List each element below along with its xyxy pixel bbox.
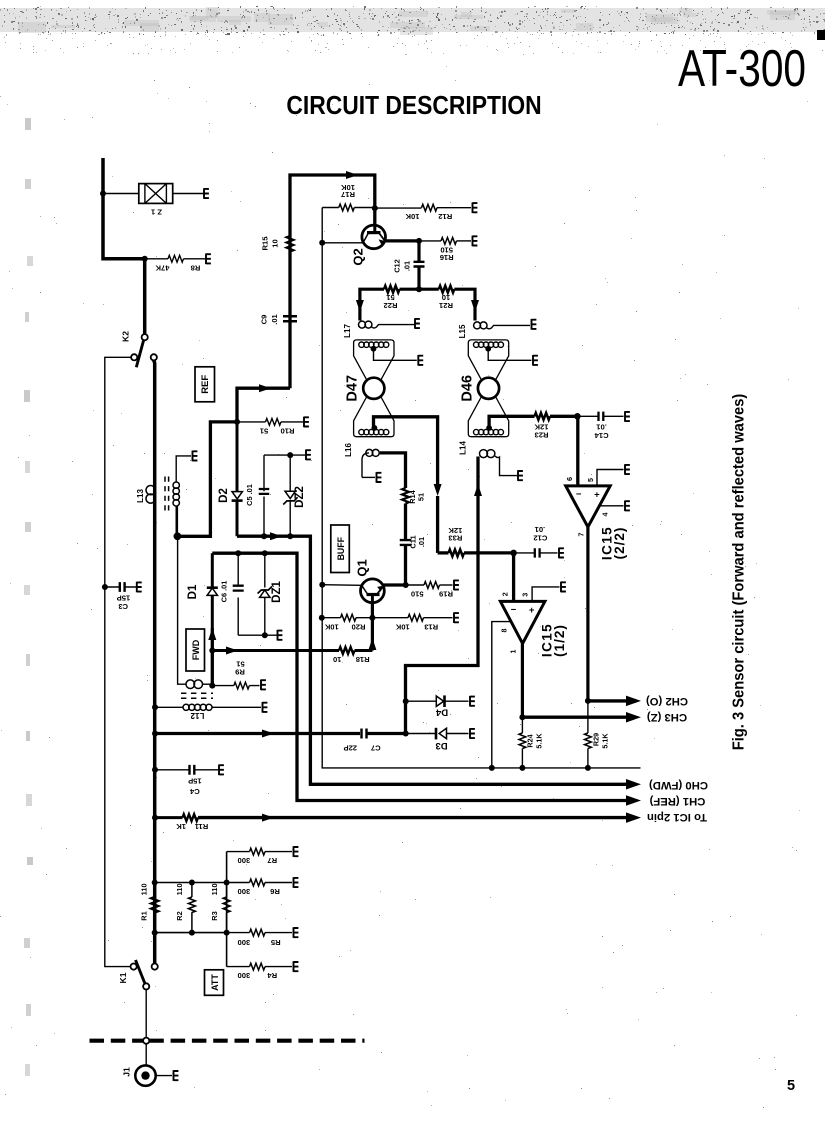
arrow C7 line bbox=[262, 730, 274, 738]
wire L13 tap down to L12 primary bbox=[178, 536, 187, 684]
svg-text:C14: C14 bbox=[594, 431, 609, 440]
ground R9 bbox=[261, 680, 266, 691]
svg-text:C9: C9 bbox=[260, 315, 269, 325]
wire Q1 emitter to R18 bbox=[371, 618, 374, 644]
svg-text:R9: R9 bbox=[235, 667, 245, 676]
diode D2 bbox=[218, 422, 243, 536]
resistor R17 10K bbox=[322, 183, 375, 211]
svg-text:300: 300 bbox=[238, 971, 251, 980]
resistor R29 5.1K bbox=[585, 701, 610, 768]
svg-text:D3: D3 bbox=[435, 740, 447, 751]
svg-text:1K: 1K bbox=[176, 822, 186, 831]
node DZ2 top bbox=[287, 452, 293, 458]
svg-text:47K: 47K bbox=[155, 264, 169, 273]
ground L17 bbox=[415, 318, 420, 329]
wire REF rail bbox=[237, 536, 627, 784]
svg-text:.01: .01 bbox=[417, 537, 426, 547]
node R20 line junctions bbox=[319, 615, 376, 621]
svg-text:2: 2 bbox=[501, 592, 510, 596]
wire main bus bbox=[152, 360, 156, 963]
svg-text:3: 3 bbox=[521, 593, 530, 597]
svg-text:R6: R6 bbox=[270, 887, 280, 896]
node R17 collector junction bbox=[372, 205, 378, 211]
wire D46 output bbox=[489, 416, 534, 428]
wire FWD column lower bbox=[211, 628, 214, 686]
svg-text:R12: R12 bbox=[438, 212, 452, 221]
wire L16 to R14 column bbox=[380, 453, 406, 488]
capacitor C3 15P bbox=[105, 582, 137, 611]
svg-text:L17: L17 bbox=[343, 324, 352, 338]
svg-text:R17: R17 bbox=[341, 190, 355, 199]
inductor L15 bbox=[458, 322, 530, 338]
svg-text:R5: R5 bbox=[270, 938, 280, 947]
wire R15 C9 column bbox=[290, 175, 375, 388]
node R11 tap bbox=[152, 815, 158, 821]
resistor R3 110 bbox=[210, 883, 230, 933]
node bias bus junctions bbox=[489, 765, 591, 771]
label box FWD bbox=[186, 629, 205, 671]
svg-text:4: 4 bbox=[601, 513, 610, 517]
svg-text:110: 110 bbox=[175, 883, 184, 895]
svg-text:R24: R24 bbox=[526, 734, 535, 747]
svg-text:L16: L16 bbox=[344, 443, 353, 457]
wire C6 DZ1 ground line bbox=[238, 634, 276, 636]
ground R13 bbox=[454, 612, 459, 623]
ground R4 bbox=[294, 961, 299, 972]
ground L13 secondary bbox=[193, 451, 198, 462]
svg-text:L15: L15 bbox=[458, 324, 467, 338]
wire attenuator bottom rail bbox=[155, 932, 227, 934]
chassis dashed line bbox=[90, 1039, 365, 1043]
resistor R33 12K bbox=[438, 526, 514, 556]
resistor R8 47K bbox=[145, 255, 206, 272]
arrowhead CH3 output bbox=[626, 712, 641, 723]
svg-text:300: 300 bbox=[238, 938, 251, 947]
wire REF corner bbox=[237, 388, 290, 422]
capacitor C5 .01 bbox=[245, 455, 269, 536]
node C7 on bus bbox=[152, 731, 158, 737]
diode D1 bbox=[187, 553, 218, 628]
svg-text:R23: R23 bbox=[535, 430, 549, 439]
wire antenna input top bbox=[103, 158, 145, 334]
node C12 R21 R22 junction bbox=[416, 286, 422, 292]
wire FWD rail bbox=[212, 553, 627, 800]
svg-text:+: + bbox=[594, 489, 600, 500]
zener diode DZ1 bbox=[258, 553, 283, 635]
svg-text:+: + bbox=[529, 605, 535, 616]
wire L14 column down bbox=[406, 457, 479, 734]
op-amp IC15 2/2 bbox=[565, 477, 627, 560]
svg-text:15P: 15P bbox=[117, 594, 131, 603]
ground C12b bbox=[559, 548, 564, 559]
arrow L14 column up bbox=[474, 484, 482, 496]
svg-text:R11: R11 bbox=[194, 822, 208, 831]
ground pin3 bbox=[561, 582, 566, 593]
ground L14 bbox=[518, 470, 523, 481]
svg-text:22P: 22P bbox=[344, 744, 358, 753]
wire Q1 emitter column bbox=[371, 603, 374, 618]
wire Q1 base bbox=[322, 584, 361, 587]
ground R6 bbox=[294, 877, 299, 888]
svg-text:CH0 (FWD): CH0 (FWD) bbox=[649, 779, 708, 791]
inductor L14 bbox=[459, 441, 518, 476]
resistor R18 10 and FWD feed line bbox=[212, 644, 372, 664]
inductor L16 bbox=[344, 443, 379, 478]
ground R7 bbox=[294, 846, 299, 857]
wire Q2 base column bbox=[321, 208, 323, 585]
arrowhead CH0 output bbox=[626, 779, 641, 790]
svg-text:15P: 15P bbox=[188, 777, 202, 786]
svg-text:7: 7 bbox=[577, 533, 586, 537]
zener diode DZ2 bbox=[283, 455, 306, 536]
svg-text:DZ1: DZ1 bbox=[271, 581, 283, 603]
resistor R21 10 bbox=[419, 286, 475, 321]
node DZ1 bottom bbox=[262, 632, 268, 638]
svg-text:8: 8 bbox=[500, 629, 509, 633]
svg-text:ATT: ATT bbox=[210, 974, 220, 991]
node C4 tap bbox=[152, 767, 158, 773]
svg-text:R16: R16 bbox=[440, 253, 454, 262]
ground R16 bbox=[473, 236, 478, 247]
svg-text:110: 110 bbox=[140, 883, 149, 895]
heading CIRCUIT DESCRIPTION bbox=[286, 92, 541, 121]
coupler transformer D47 bbox=[345, 340, 417, 437]
wire CH2 output line bbox=[588, 699, 627, 702]
arrow REF rail bbox=[270, 532, 282, 540]
ground R19 bbox=[454, 580, 459, 591]
svg-text:5: 5 bbox=[787, 1078, 795, 1094]
arrow R11 line bbox=[262, 814, 274, 822]
corner mark top right bbox=[817, 30, 825, 40]
ground L12 bbox=[263, 702, 268, 713]
arrowhead To IC1 output bbox=[626, 812, 641, 823]
ground C4 bbox=[219, 765, 224, 776]
node R23 C14 junction bbox=[574, 413, 581, 420]
ground DZ2 top bbox=[306, 450, 311, 461]
wire D47 output bbox=[374, 417, 438, 484]
svg-text:R33: R33 bbox=[448, 534, 462, 543]
svg-text:R3: R3 bbox=[210, 911, 219, 920]
title AT-300 bbox=[678, 39, 806, 97]
ground C3 bbox=[137, 582, 142, 593]
wire C7 line bbox=[155, 732, 360, 735]
capacitor C14 .01 bbox=[577, 412, 623, 440]
svg-text:C5 .01: C5 .01 bbox=[245, 484, 254, 506]
ground Z1 bbox=[204, 188, 209, 199]
svg-text:R1: R1 bbox=[140, 911, 149, 920]
ground DZ1 C6 bbox=[278, 630, 283, 641]
svg-text:D2: D2 bbox=[218, 488, 230, 503]
resistor R16 510 bbox=[419, 238, 471, 262]
svg-text:Q1: Q1 bbox=[355, 559, 370, 576]
transistor Q2 bbox=[351, 225, 386, 266]
svg-text:R4: R4 bbox=[267, 971, 277, 980]
wire Q2 base bbox=[322, 242, 362, 244]
node C3 tap bbox=[102, 584, 108, 590]
wire Q1 collector bbox=[384, 583, 406, 586]
svg-text:To IC1 2pin: To IC1 2pin bbox=[647, 811, 707, 823]
svg-text:L12: L12 bbox=[190, 711, 204, 720]
coupler transformer D46 bbox=[460, 340, 532, 437]
svg-text:CH3 (Z): CH3 (Z) bbox=[647, 711, 687, 723]
wire IC15 pin3 to ground bbox=[532, 587, 559, 602]
capacitor C6 .01 bbox=[220, 553, 244, 635]
node CH3 junction bbox=[519, 714, 525, 720]
svg-text:110: 110 bbox=[210, 883, 219, 895]
svg-text:−: − bbox=[511, 605, 517, 616]
resistor R12 10K bbox=[375, 204, 471, 221]
wire IC15 pin5 to ground bbox=[597, 470, 624, 486]
ground C14 bbox=[625, 411, 630, 422]
svg-text:Z 1: Z 1 bbox=[150, 208, 162, 217]
arrow emitter column up bbox=[368, 638, 376, 650]
svg-text:.01: .01 bbox=[596, 423, 607, 432]
svg-text:R13: R13 bbox=[424, 623, 438, 632]
node R10 junction bbox=[234, 419, 240, 425]
svg-text:K1: K1 bbox=[118, 972, 128, 983]
svg-text:R19: R19 bbox=[439, 590, 453, 599]
wire CH3 output line bbox=[522, 716, 627, 719]
svg-text:R15: R15 bbox=[261, 236, 270, 251]
svg-text:R7: R7 bbox=[267, 856, 277, 865]
wire C11 to Q1 collector bbox=[404, 545, 407, 585]
ground R10 bbox=[304, 417, 309, 428]
diode D4 bbox=[406, 695, 469, 717]
resistor R4 300 bbox=[227, 963, 292, 980]
transformer L13 bbox=[136, 456, 191, 533]
ground L15 bbox=[532, 319, 537, 330]
node Q1 collector junction bbox=[403, 582, 409, 588]
resistor R15 10 bbox=[261, 236, 294, 252]
node R1 top bbox=[152, 880, 158, 886]
svg-text:51: 51 bbox=[236, 659, 245, 668]
node input junction bbox=[100, 191, 148, 262]
resistor R24 5.1K bbox=[519, 717, 544, 768]
ground J1 bbox=[174, 1070, 179, 1081]
capacitor C4 15P bbox=[155, 765, 218, 796]
svg-text:K2: K2 bbox=[121, 331, 131, 342]
arrow FWD column up bbox=[208, 628, 216, 640]
ground L16 bbox=[377, 472, 382, 483]
svg-text:AT-300: AT-300 bbox=[678, 39, 806, 97]
capacitor C7 22P bbox=[344, 729, 406, 753]
wire Q2 emitter bbox=[385, 239, 419, 242]
resistor R22 51 bbox=[360, 286, 419, 321]
resistor R1 110 bbox=[140, 883, 159, 920]
svg-text:R10: R10 bbox=[281, 427, 295, 436]
svg-text:10: 10 bbox=[333, 655, 341, 664]
relay switch K1 bbox=[118, 960, 158, 990]
boundary contact circle bbox=[143, 1038, 149, 1044]
svg-text:10K: 10K bbox=[324, 623, 338, 632]
resistor R20 10K bbox=[322, 614, 373, 631]
svg-text:5.1K: 5.1K bbox=[535, 733, 544, 749]
svg-text:Q2: Q2 bbox=[351, 248, 366, 265]
svg-text:300: 300 bbox=[238, 887, 251, 896]
svg-text:C12: C12 bbox=[533, 534, 547, 543]
arrow into L15 bbox=[471, 300, 479, 312]
wire C5 DZ2 top to ground bbox=[264, 454, 305, 456]
ground pin5 bbox=[625, 464, 630, 475]
svg-text:.01: .01 bbox=[403, 261, 412, 271]
svg-text:Fig. 3 Sensor circuit (Forwar: Fig. 3 Sensor circuit (Forward and refle… bbox=[730, 394, 747, 751]
ground R5 bbox=[294, 927, 299, 938]
resistor R10 51 bbox=[237, 419, 304, 436]
svg-text:(1/2): (1/2) bbox=[552, 624, 567, 657]
node Q2 base junction bbox=[319, 240, 325, 246]
svg-text:300: 300 bbox=[238, 856, 251, 865]
wire attenuator top rail bbox=[155, 882, 227, 884]
ground R8 bbox=[206, 253, 211, 264]
capacitor C11 .01 bbox=[400, 535, 426, 548]
svg-text:L14: L14 bbox=[459, 441, 468, 455]
svg-text:(2/2): (2/2) bbox=[612, 527, 627, 560]
arrow into L17 bbox=[356, 300, 364, 312]
connector J1 bbox=[122, 1065, 173, 1085]
relay switch K2 bbox=[121, 331, 157, 368]
caption Fig. 3 Sensor circuit (Forward and reflected waves) bbox=[730, 394, 747, 751]
wire K1 to J1 bbox=[145, 990, 147, 1038]
page number 5 bbox=[787, 1078, 795, 1094]
node REF rail junctions C5 DZ2 bbox=[261, 533, 293, 539]
wire attenuator right rail bbox=[226, 852, 228, 967]
svg-text:R21: R21 bbox=[438, 301, 453, 310]
svg-text:51: 51 bbox=[417, 493, 426, 501]
svg-text:C4: C4 bbox=[189, 787, 199, 796]
svg-text:R18: R18 bbox=[356, 655, 370, 664]
node FWD feed junction bbox=[209, 648, 215, 654]
svg-text:10: 10 bbox=[271, 239, 280, 247]
node R33 C12b junction bbox=[510, 550, 517, 557]
resistor R13 10K bbox=[372, 614, 452, 631]
svg-text:R8: R8 bbox=[191, 264, 201, 273]
capacitor C12 .01 bbox=[393, 241, 425, 289]
svg-text:CH2 (O): CH2 (O) bbox=[646, 695, 688, 707]
wire IC15-1 output bbox=[521, 644, 524, 718]
svg-text:REF: REF bbox=[200, 375, 211, 394]
svg-text:51: 51 bbox=[259, 427, 268, 436]
arrow feed to Q2 bbox=[346, 171, 358, 179]
svg-text:.01: .01 bbox=[534, 525, 545, 534]
svg-text:C12: C12 bbox=[393, 259, 402, 273]
resistor R2 110 bbox=[175, 883, 195, 933]
wire contact to J1 bbox=[145, 1044, 147, 1065]
svg-text:CH1 (REF): CH1 (REF) bbox=[649, 795, 705, 807]
wire REF to L13 secondary bbox=[177, 422, 237, 536]
svg-text:D46: D46 bbox=[460, 375, 476, 402]
wire IC15 pin8 bbox=[492, 622, 512, 768]
arrow FWD feed bbox=[226, 647, 238, 655]
node R3 junctions bbox=[224, 880, 230, 936]
surge arrester Z1 bbox=[103, 184, 204, 217]
inductor L17 bbox=[343, 321, 414, 338]
wire D47 output lower bbox=[436, 496, 439, 553]
resistor R19 510 bbox=[406, 582, 453, 599]
svg-text:FWD: FWD bbox=[191, 639, 201, 660]
svg-text:1: 1 bbox=[509, 650, 518, 654]
capacitor C12 .01 opamp input bbox=[514, 525, 558, 558]
binding marks left margin bbox=[24, 118, 33, 1076]
resistor R9 51 bbox=[212, 659, 259, 689]
transistor Q1 bbox=[355, 559, 385, 602]
label box ATT bbox=[205, 970, 224, 996]
svg-text:R2: R2 bbox=[175, 911, 184, 920]
scan noise band top bbox=[0, 6, 825, 55]
ground R12 bbox=[473, 202, 478, 213]
label box REF bbox=[195, 367, 215, 402]
svg-text:D4: D4 bbox=[435, 707, 448, 718]
svg-text:C6 .01: C6 .01 bbox=[220, 581, 229, 603]
svg-text:10K: 10K bbox=[395, 623, 409, 632]
svg-text:R20: R20 bbox=[352, 623, 366, 632]
svg-text:C3: C3 bbox=[118, 602, 128, 611]
node Q2 emitter junction bbox=[416, 238, 422, 244]
node R1 bottom bbox=[152, 930, 158, 936]
resistor R11 1K and line to IC1 bbox=[155, 814, 627, 831]
svg-text:L13: L13 bbox=[136, 489, 145, 503]
wire IC15 pin6 input bbox=[576, 416, 579, 485]
node D3 D4 junctions bbox=[403, 698, 409, 736]
wire IC15-2 output bbox=[586, 527, 589, 701]
ground D3 bbox=[470, 728, 475, 739]
svg-text:5.1K: 5.1K bbox=[601, 733, 610, 749]
ground pin4 bbox=[625, 501, 630, 512]
ground D47 tap bbox=[418, 355, 423, 366]
diode D3 bbox=[406, 728, 469, 751]
label box BUFF bbox=[331, 525, 350, 573]
ground D4 bbox=[470, 696, 475, 707]
wire bias bus bbox=[322, 585, 640, 768]
arrowhead CH2 output bbox=[626, 696, 641, 707]
wire IC15 pin4 to ground bbox=[599, 505, 623, 507]
node L13 secondary bottom bbox=[174, 532, 182, 540]
svg-text:.01: .01 bbox=[270, 313, 279, 324]
node L12 on bus bbox=[152, 704, 158, 710]
resistor R14 51 bbox=[402, 488, 425, 504]
arrowhead CH1 output bbox=[626, 795, 641, 806]
resistor R7 300 bbox=[227, 848, 292, 865]
svg-text:R29: R29 bbox=[592, 733, 601, 746]
svg-text:BUFF: BUFF bbox=[336, 536, 346, 560]
svg-text:CIRCUIT DESCRIPTION: CIRCUIT DESCRIPTION bbox=[286, 92, 541, 121]
wire IC15 pin2 input bbox=[512, 553, 515, 600]
resistor R5 300 bbox=[227, 929, 292, 947]
node FWD L12 junction bbox=[209, 683, 215, 689]
capacitor C9 .01 bbox=[260, 313, 298, 324]
svg-text:−: − bbox=[576, 489, 582, 500]
node R2 junctions bbox=[189, 880, 195, 936]
svg-text:J1: J1 bbox=[122, 1067, 132, 1077]
svg-text:6: 6 bbox=[565, 477, 574, 481]
ground D46 tap bbox=[533, 355, 538, 366]
node FWD rail junctions C6 DZ1 bbox=[235, 550, 268, 556]
node Q1 base junction bbox=[319, 582, 325, 588]
svg-text:D1: D1 bbox=[187, 584, 199, 599]
svg-text:10K: 10K bbox=[405, 212, 419, 221]
arrow REF corner bbox=[259, 384, 271, 392]
output labels CH2 CH3 bbox=[646, 695, 688, 723]
resistor R23 12K bbox=[534, 413, 577, 439]
output labels CH0 CH1 IC1 bbox=[647, 779, 708, 823]
wire R14 to C11 bbox=[404, 504, 407, 540]
wire K2 bypass to left rail bbox=[105, 357, 131, 966]
op-amp IC15 1/2 bbox=[500, 592, 568, 657]
svg-text:5: 5 bbox=[586, 478, 595, 482]
svg-text:R22: R22 bbox=[384, 301, 398, 310]
arrow D47 output down bbox=[434, 484, 442, 496]
resistor R6 300 bbox=[227, 879, 292, 896]
svg-text:DZ2: DZ2 bbox=[294, 486, 306, 508]
